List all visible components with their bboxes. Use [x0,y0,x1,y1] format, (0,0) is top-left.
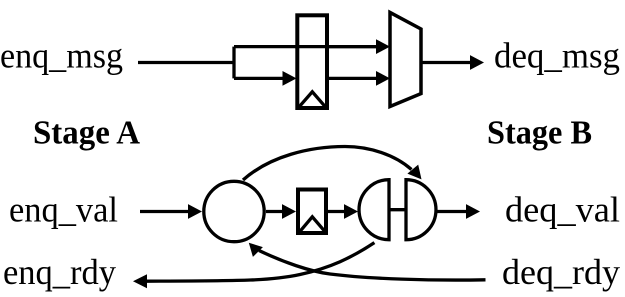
svg-text:enq_val: enq_val [9,190,118,230]
svg-text:enq_rdy: enq_rdy [3,252,116,292]
svg-text:deq_val: deq_val [505,190,620,230]
svg-text:deq_rdy: deq_rdy [502,252,620,292]
svg-text:Stage A: Stage A [33,115,140,152]
svg-text:enq_msg: enq_msg [0,36,123,76]
svg-text:Stage B: Stage B [487,115,592,152]
svg-text:deq_msg: deq_msg [494,36,620,76]
